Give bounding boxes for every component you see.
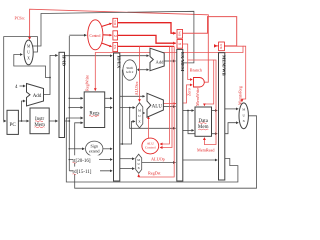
svg-text:RegDst: RegDst: [148, 171, 161, 176]
wire read data 1 to ID/EX: [105, 97, 112, 99]
node rt[20-16] label: [73, 155, 99, 162]
svg-text:Control: Control: [145, 146, 156, 150]
mux RegDst: [136, 154, 142, 173]
wire PC to Instr Mem: [18, 120, 28, 122]
adder Add branch: [150, 48, 164, 70]
node junction immediate: [121, 143, 123, 145]
register PC: [7, 110, 18, 134]
shifter shift left 2: [123, 60, 137, 80]
control box M (ID/EX): [113, 31, 118, 40]
wire read data 1 to ALU: [120, 95, 145, 97]
node junction ALU result: [187, 110, 189, 112]
node junction PC out: [21, 120, 23, 122]
wire branch target EX/MEM to PC mux (black top rail): [25, 11, 194, 63]
svg-text:MemtoReg: MemtoReg: [238, 85, 243, 105]
svg-text:Mem: Mem: [34, 123, 45, 128]
wire WB control ID/EX to EX/MEM: [118, 23, 176, 34]
control box WB (EX/MEM): [177, 30, 183, 39]
wire PC+4 to mux input 1: [14, 55, 50, 78]
control box EX (ID/EX): [113, 43, 118, 52]
svg-text:Data: Data: [198, 119, 208, 124]
svg-text:PC: PC: [10, 122, 17, 128]
wire write data EX/MEM to Data Mem: [183, 129, 194, 131]
wire MEM/WB read data to mux: [225, 108, 238, 110]
wire RegWrite control to Regs: [95, 46, 243, 90]
wire MEM/WB ALU result to mux: [225, 123, 238, 134]
alu ALU: [147, 93, 163, 117]
wire Control to M box: [103, 34, 112, 36]
wire read data 2 to ALUSrc mux: [120, 107, 135, 109]
adder Add +4: [27, 84, 44, 107]
svg-text:MemWrite: MemWrite: [195, 88, 200, 106]
svg-text:4: 4: [15, 85, 18, 90]
mux ALUSrc: [136, 103, 143, 128]
svg-text:left 2: left 2: [126, 70, 134, 74]
wire ALUSrc control to mux: [139, 46, 141, 101]
wire MemtoReg control to mux: [242, 46, 246, 101]
node junction read data 2: [129, 107, 131, 109]
wire Instr Mem to IF/ID: [49, 120, 57, 122]
wire const 4 into adder: [20, 85, 26, 87]
wire IF/ID PC+4 to ID/EX: [64, 55, 112, 57]
svg-text:RegWrite: RegWrite: [84, 75, 89, 91]
wire instruction bus: [64, 36, 69, 171]
svg-text:EX/MEM: EX/MEM: [180, 52, 185, 72]
svg-text:Branch: Branch: [190, 68, 203, 73]
wire write register number return to Regs: [66, 118, 238, 182]
svg-text:U: U: [27, 51, 30, 55]
memory Data Mem: [195, 107, 212, 136]
register MEM/WB: [219, 53, 225, 180]
svg-text:Zero: Zero: [187, 88, 192, 96]
svg-text:Add: Add: [156, 59, 165, 64]
svg-text:Mem: Mem: [198, 125, 209, 130]
svg-text:MemRead: MemRead: [197, 148, 215, 153]
node rd[15-11] label: [73, 167, 100, 174]
wire shift left 2 to branch adder: [137, 69, 141, 71]
wire Control to WB box: [102, 23, 112, 26]
wire WB control EX/MEM to MEM/WB: [183, 17, 237, 46]
wire ALUSrc mux to ALU: [143, 112, 145, 114]
wire mux output to PC: [4, 37, 38, 121]
svg-text:M: M: [242, 108, 245, 112]
node junction PC+4: [49, 77, 51, 79]
wire register number EX/MEM to MEM/WB: [183, 159, 217, 161]
control box M (EX/MEM): [177, 40, 183, 49]
wire sign extend to ID/EX: [103, 148, 112, 150]
wire bus to read register 2: [69, 107, 83, 109]
wire bus to sign extend: [69, 148, 84, 150]
wire bus to Control: [69, 34, 86, 36]
svg-text:WB: WB: [113, 20, 117, 25]
svg-text:MEM/WB: MEM/WB: [222, 55, 227, 76]
wire write-back data return to Regs: [75, 116, 257, 188]
register EX/MEM: [177, 49, 183, 181]
wire EX control fanout: [118, 45, 175, 47]
wire PC+4 add output to IF/ID: [44, 55, 58, 94]
wire branch adder to EX/MEM: [164, 60, 175, 62]
wire zero EX/MEM to AND gate: [183, 85, 192, 103]
svg-text:M: M: [138, 109, 141, 113]
wire RegDst mux to EX/MEM: [142, 162, 175, 164]
svg-text:Control: Control: [90, 34, 101, 38]
wire ID/EX PC+4 to branch adder: [120, 55, 149, 57]
svg-text:X: X: [27, 57, 30, 61]
wire RegDst control to mux: [139, 46, 175, 177]
wire immediate to shift left 2 and ALUSrc mux: [120, 70, 123, 144]
wire Branch control to AND gate: [183, 44, 193, 80]
wire ALU control to ALU: [148, 117, 150, 139]
wire PCSrc red feedback rail: [30, 9, 209, 82]
register file Regs: [84, 92, 105, 128]
wire ALU result EX/MEM to Data Mem address: [183, 110, 194, 112]
control box WB (MEM/WB): [219, 42, 225, 51]
svg-text:PCSrc: PCSrc: [15, 15, 25, 20]
svg-text:extend: extend: [89, 148, 100, 153]
wire ALU result bypass to MEM/WB: [188, 111, 217, 134]
register IF/ID: [59, 52, 65, 137]
svg-text:ID/EX: ID/EX: [116, 56, 121, 69]
mux PCSrc: [24, 40, 33, 65]
wire rd out of ID/EX to RegDst mux: [120, 168, 135, 170]
wire Data Mem read data to MEM/WB: [212, 110, 218, 112]
node junction bus taps: [68, 98, 70, 161]
wire MemWrite control to Data Mem: [188, 60, 214, 106]
register ID/EX: [114, 53, 120, 181]
wire M control ID/EX to EX/MEM: [118, 35, 176, 43]
wire bus to read register 1: [69, 97, 83, 99]
wire read data 2 to ID/EX: [105, 107, 112, 109]
svg-text:ALUOp: ALUOp: [151, 157, 165, 162]
wire rt out of ID/EX to RegDst mux: [120, 158, 135, 160]
AND gate branch: [194, 78, 205, 88]
wire ALU zero to EX/MEM: [163, 103, 175, 105]
svg-text:Instr: Instr: [35, 117, 45, 122]
sign extend unit: [86, 141, 103, 156]
wire ALU result to EX/MEM: [163, 106, 175, 108]
svg-text:WB: WB: [177, 31, 181, 36]
wire read data 2 to EX/MEM write data: [130, 108, 176, 129]
control unit Control: [88, 20, 103, 50]
svg-text:WB: WB: [219, 44, 223, 49]
svg-text:Add: Add: [33, 94, 42, 99]
wire MemRead control to Data Mem: [204, 60, 216, 145]
mux MemtoReg write-back: [239, 103, 248, 129]
svg-text:M: M: [178, 42, 181, 46]
wire rd field to ID/EX: [69, 170, 112, 172]
wire PC to +4 adder: [22, 101, 26, 121]
svg-text:ALU: ALU: [147, 141, 155, 145]
memory Instr Mem: [30, 108, 49, 134]
wire ALUOp controls to ALU control: [160, 46, 169, 144]
alu control unit: [142, 138, 159, 154]
wire rt field to ID/EX: [69, 159, 112, 161]
wire Control to EX box: [102, 43, 112, 47]
svg-text:ALUSrc: ALUSrc: [134, 81, 139, 95]
svg-text:ALU: ALU: [152, 104, 163, 109]
svg-text:M: M: [114, 34, 117, 38]
control box WB (ID/EX): [113, 18, 118, 27]
svg-text:IF/ID: IF/ID: [61, 55, 66, 67]
